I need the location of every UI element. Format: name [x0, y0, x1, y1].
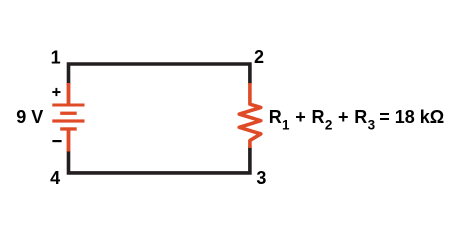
svg-text:2: 2: [254, 47, 264, 67]
svg-text:R1 + R2 + R3: R1 + R2 + R3: [269, 107, 376, 132]
svg-text:kΩ: kΩ: [420, 107, 444, 127]
svg-text:= 18: = 18: [379, 107, 415, 127]
svg-text:9 V: 9 V: [16, 107, 43, 127]
svg-text:4: 4: [50, 168, 60, 188]
svg-text:1: 1: [51, 47, 61, 67]
svg-text:3: 3: [256, 168, 266, 188]
